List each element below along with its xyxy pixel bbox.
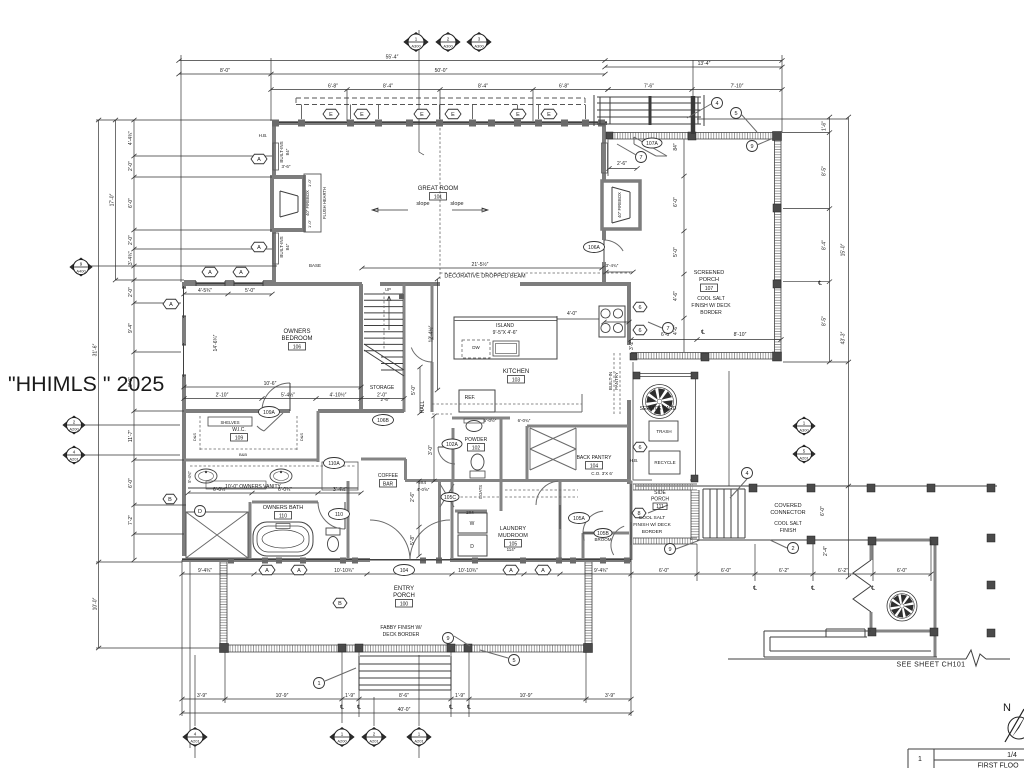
svg-text:7'-6″: 7'-6″ (644, 84, 654, 90)
svg-text:KITCHEN: KITCHEN (503, 369, 529, 375)
svg-text:9'-4¾″: 9'-4¾″ (198, 568, 212, 574)
svg-text:A: A (257, 245, 261, 251)
svg-text:SCREENED: SCREENED (694, 270, 725, 276)
svg-text:2'-0″: 2'-0″ (128, 161, 134, 171)
svg-text:BORDER: BORDER (642, 529, 663, 535)
svg-text:A400: A400 (76, 269, 86, 274)
svg-text:6'-0″: 6'-0″ (659, 568, 669, 574)
svg-text:8'-6″: 8'-6″ (399, 693, 409, 699)
svg-text:9: 9 (668, 547, 671, 553)
svg-text:COVERED: COVERED (774, 503, 801, 509)
svg-text:8'-5″: 8'-5″ (822, 316, 828, 326)
svg-text:D: D (470, 544, 474, 550)
svg-text:40″ FIREBOX: 40″ FIREBOX (617, 192, 622, 218)
svg-text:A: A (297, 568, 301, 574)
svg-text:40'-0″: 40'-0″ (398, 707, 411, 713)
svg-text:2X4: 2X4 (466, 510, 474, 515)
svg-text:8'-4″: 8'-4″ (383, 84, 393, 90)
svg-text:4'-6″: 4'-6″ (673, 325, 679, 335)
svg-text:6: 6 (638, 445, 641, 451)
svg-text:4'-5¾″: 4'-5¾″ (198, 288, 212, 294)
svg-text:A201: A201 (69, 457, 79, 462)
svg-text:℄: ℄ (817, 281, 822, 287)
svg-text:E: E (329, 112, 333, 118)
svg-text:10'-10¾″: 10'-10¾″ (458, 568, 478, 574)
svg-text:DECK BORDER: DECK BORDER (383, 632, 420, 638)
svg-text:1/4: 1/4 (1007, 752, 1017, 759)
svg-text:2'-10″: 2'-10″ (216, 393, 229, 399)
svg-text:A: A (257, 157, 261, 163)
svg-text:A: A (509, 568, 513, 574)
svg-text:2'-0″: 2'-0″ (128, 235, 134, 245)
svg-text:A300: A300 (474, 44, 484, 49)
svg-text:3'-0″: 3'-0″ (428, 445, 434, 455)
svg-text:10'-0″ OWNERS VANITY: 10'-0″ OWNERS VANITY (225, 484, 281, 490)
svg-text:6: 6 (638, 305, 641, 311)
svg-text:POWDER: POWDER (465, 437, 488, 443)
svg-text:A200: A200 (337, 739, 347, 744)
svg-text:BUILT-INS: BUILT-INS (279, 141, 284, 162)
svg-text:A201: A201 (369, 739, 379, 744)
svg-text:6'-0″: 6'-0″ (128, 198, 134, 208)
svg-text:LAUNDRY: LAUNDRY (500, 526, 527, 532)
svg-text:1: 1 (918, 756, 922, 763)
svg-text:105C: 105C (444, 495, 456, 501)
svg-text:A: A (541, 568, 545, 574)
svg-text:5'-4½″: 5'-4½″ (281, 392, 295, 399)
svg-text:D&S: D&S (299, 433, 304, 442)
svg-text:102: 102 (472, 445, 481, 451)
svg-text:℄: ℄ (700, 330, 705, 336)
svg-text:7: 7 (639, 155, 642, 161)
svg-text:4'-6″: 4'-6″ (673, 291, 679, 301)
svg-text:℄: ℄ (339, 705, 344, 711)
svg-text:1'-9″: 1'-9″ (455, 693, 465, 699)
svg-text:1'-6″: 1'-6″ (822, 121, 828, 131)
svg-text:DW: DW (472, 345, 480, 350)
svg-text:107A: 107A (646, 141, 658, 147)
svg-text:SERVICE YARD: SERVICE YARD (640, 406, 677, 412)
svg-text:COATS: COATS (478, 485, 483, 499)
svg-text:PORCH: PORCH (393, 593, 415, 599)
svg-text:UP: UP (385, 287, 391, 292)
svg-text:4'-0⅝″: 4'-0⅝″ (417, 487, 430, 492)
svg-text:BACK PANTRY: BACK PANTRY (577, 455, 612, 461)
svg-text:A: A (208, 270, 212, 276)
svg-text:6'-0″: 6'-0″ (128, 478, 134, 488)
svg-text:℄: ℄ (752, 586, 757, 592)
svg-text:9: 9 (750, 144, 753, 150)
svg-text:106: 106 (293, 344, 302, 350)
svg-text:FINISH W/ DECK: FINISH W/ DECK (633, 522, 671, 528)
svg-text:3'-9″: 3'-9″ (197, 693, 207, 699)
svg-text:ENTRY: ENTRY (394, 586, 414, 592)
svg-text:6'-8″: 6'-8″ (328, 84, 338, 90)
svg-text:℄: ℄ (810, 586, 815, 592)
svg-text:14'-6¾″: 14'-6¾″ (213, 334, 219, 351)
svg-text:9X4: 9X4 (418, 480, 427, 485)
svg-text:PORCH: PORCH (651, 497, 669, 503)
svg-text:110: 110 (335, 512, 343, 518)
svg-text:slope: slope (416, 201, 429, 207)
svg-text:RECYCLE: RECYCLE (654, 460, 675, 465)
svg-text:5'-0″: 5'-0″ (411, 385, 417, 395)
svg-text:5'-4¾″: 5'-4¾″ (187, 471, 192, 483)
svg-text:5'-8″: 5'-8″ (410, 535, 416, 545)
svg-text:℄: ℄ (870, 586, 875, 592)
svg-text:109: 109 (235, 435, 244, 441)
svg-text:114″: 114″ (507, 547, 516, 552)
svg-text:B: B (168, 497, 172, 503)
svg-text:8'-5″: 8'-5″ (822, 166, 828, 176)
svg-text:COFFEE: COFFEE (378, 473, 399, 479)
svg-text:6'-2″: 6'-2″ (779, 568, 789, 574)
svg-text:11'-7″: 11'-7″ (128, 430, 134, 443)
svg-text:E: E (547, 112, 551, 118)
svg-text:7: 7 (666, 326, 669, 332)
svg-text:5'-0″: 5'-0″ (245, 288, 255, 294)
svg-text:D&S: D&S (192, 433, 197, 442)
svg-text:HALL: HALL (420, 401, 426, 414)
svg-text:GREAT ROOM: GREAT ROOM (418, 186, 458, 192)
svg-text:2'-4″: 2'-4″ (823, 546, 829, 556)
svg-text:3'-2″: 3'-2″ (629, 340, 635, 350)
svg-text:OWNERS BATH: OWNERS BATH (263, 505, 304, 511)
svg-text:43'-3″: 43'-3″ (840, 331, 846, 344)
svg-text:3'-4¾″: 3'-4¾″ (606, 263, 619, 268)
svg-text:℄: ℄ (448, 705, 453, 711)
svg-text:9'-4″: 9'-4″ (128, 323, 134, 333)
svg-text:OWNERS: OWNERS (284, 329, 311, 335)
svg-text:5: 5 (512, 658, 515, 664)
svg-text:55'-4″: 55'-4″ (386, 55, 399, 61)
svg-text:D: D (198, 509, 202, 515)
svg-text:3'-4¾″: 3'-4¾″ (128, 251, 134, 265)
svg-text:9'-4¾″: 9'-4¾″ (594, 568, 608, 574)
svg-text:E: E (420, 112, 424, 118)
svg-text:W: W (470, 521, 475, 527)
svg-text:106B: 106B (377, 418, 389, 424)
svg-text:2'-0″: 2'-0″ (128, 287, 134, 297)
svg-text:10'-9″: 10'-9″ (520, 693, 533, 699)
svg-text:B&B: B&B (239, 452, 247, 457)
svg-text:A300: A300 (443, 44, 453, 49)
svg-text:A: A (169, 302, 173, 308)
svg-text:A201: A201 (414, 739, 424, 744)
svg-text:110A: 110A (328, 461, 340, 467)
svg-text:104: 104 (590, 463, 599, 469)
svg-text:9: 9 (446, 636, 449, 642)
svg-text:H.B.: H.B. (259, 133, 268, 138)
svg-text:6'-0¾″: 6'-0¾″ (518, 418, 531, 423)
svg-text:6'-0″: 6'-0″ (721, 568, 731, 574)
svg-text:A300: A300 (799, 428, 809, 433)
svg-text:102A: 102A (446, 442, 458, 448)
svg-text:8'-0″: 8'-0″ (128, 377, 134, 387)
svg-text:103: 103 (512, 377, 521, 383)
svg-text:4'-10½″: 4'-10½″ (330, 392, 347, 399)
svg-text:BROOM: BROOM (594, 537, 611, 542)
svg-text:A201: A201 (190, 739, 200, 744)
svg-text:4'-0″: 4'-0″ (567, 311, 577, 317)
svg-text:BUILT-INS: BUILT-INS (279, 236, 284, 257)
svg-text:6: 6 (638, 328, 641, 334)
svg-text:E: E (360, 112, 364, 118)
svg-text:5'-0″: 5'-0″ (673, 247, 679, 257)
svg-text:1'-9″: 1'-9″ (345, 693, 355, 699)
svg-text:21'-5½″: 21'-5½″ (472, 261, 489, 268)
svg-text:5'-0½″: 5'-0½″ (484, 417, 497, 423)
svg-text:BASE: BASE (309, 263, 321, 268)
svg-text:3'-4½″: 3'-4½″ (333, 486, 347, 493)
svg-text:6'-2″: 6'-2″ (838, 568, 848, 574)
svg-text:H.B.: H.B. (630, 458, 639, 463)
svg-text:A200: A200 (69, 427, 79, 432)
svg-text:E: E (516, 112, 520, 118)
svg-text:BORDER: BORDER (700, 310, 722, 316)
svg-text:A300: A300 (411, 44, 421, 49)
svg-text:2: 2 (791, 546, 794, 552)
svg-text:110: 110 (279, 513, 287, 519)
svg-text:8'-4″: 8'-4″ (822, 240, 828, 250)
svg-text:6'-0″: 6'-0″ (673, 197, 679, 207)
svg-text:℄: ℄ (466, 705, 471, 711)
svg-text:BUILT-IN: BUILT-IN (608, 372, 613, 390)
svg-text:6'-8″: 6'-8″ (559, 84, 569, 90)
svg-text:E: E (451, 112, 455, 118)
svg-text:104: 104 (400, 568, 409, 574)
svg-text:C.O. 3'X 6': C.O. 3'X 6' (591, 471, 613, 476)
svg-text:B: B (338, 601, 342, 607)
svg-text:4'-4¾″: 4'-4¾″ (128, 131, 134, 145)
svg-text:BEDROOM: BEDROOM (281, 336, 312, 342)
svg-text:4: 4 (715, 101, 718, 107)
svg-text:3'-6″: 3'-6″ (282, 164, 291, 169)
svg-text:ISLAND: ISLAND (496, 323, 514, 329)
svg-text:SIDE: SIDE (654, 490, 666, 496)
svg-text:FINISH W/ DECK: FINISH W/ DECK (691, 303, 731, 309)
svg-text:PANTRY: PANTRY (614, 372, 619, 390)
svg-text:7'-2″: 7'-2″ (128, 515, 134, 525)
svg-text:5: 5 (734, 111, 737, 117)
svg-text:4: 4 (745, 471, 748, 477)
svg-text:6'-0″: 6'-0″ (897, 568, 907, 574)
svg-text:BAR: BAR (383, 481, 394, 487)
svg-text:84″: 84″ (673, 143, 679, 151)
svg-text:3'-9″: 3'-9″ (605, 693, 615, 699)
svg-text:105A: 105A (573, 516, 585, 522)
svg-text:TRASH: TRASH (656, 429, 671, 434)
svg-text:10'-6″: 10'-6″ (264, 381, 277, 387)
svg-text:DECORATIVE DROPPED BEAM: DECORATIVE DROPPED BEAM (444, 274, 526, 280)
svg-text:FINISH: FINISH (780, 528, 797, 534)
svg-text:12'-4½″: 12'-4½″ (428, 325, 435, 342)
svg-text:84″: 84″ (285, 148, 290, 155)
svg-text:SHELVES: SHELVES (220, 420, 239, 425)
svg-text:W.I.C.: W.I.C. (232, 427, 246, 433)
svg-text:101: 101 (434, 194, 443, 200)
svg-text:A: A (239, 270, 243, 276)
svg-text:100: 100 (400, 601, 409, 607)
svg-text:8'-4″: 8'-4″ (478, 84, 488, 90)
svg-text:31'-6″: 31'-6″ (93, 343, 99, 356)
svg-text:REF.: REF. (465, 395, 476, 401)
svg-text:8'-0″: 8'-0″ (220, 68, 230, 74)
svg-text:slope: slope (450, 201, 463, 207)
svg-text:PORCH: PORCH (699, 277, 719, 283)
svg-text:COOL SALT: COOL SALT (697, 296, 725, 302)
svg-text:COOL SALT: COOL SALT (774, 521, 802, 527)
svg-text:40″ FIREBOX: 40″ FIREBOX (305, 190, 310, 216)
svg-text:107: 107 (705, 286, 714, 292)
svg-text:FLUSH HEARTH: FLUSH HEARTH (322, 187, 327, 219)
svg-text:111: 111 (656, 504, 664, 510)
svg-text:50'-0″: 50'-0″ (435, 68, 448, 74)
svg-text:COOL SALT: COOL SALT (639, 515, 665, 521)
svg-text:FIRST FLOO: FIRST FLOO (977, 763, 1019, 768)
svg-text:MUDROOM: MUDROOM (498, 533, 528, 539)
svg-text:10'-9″: 10'-9″ (276, 693, 289, 699)
svg-text:8'-10″: 8'-10″ (734, 332, 747, 338)
svg-text:2'-6″: 2'-6″ (381, 397, 390, 402)
svg-text:1'-0″: 1'-0″ (307, 219, 312, 228)
svg-text:7'-10″: 7'-10″ (731, 84, 744, 90)
svg-text:13'-4″: 13'-4″ (698, 61, 711, 67)
svg-text:"HHIMLS " 2025: "HHIMLS " 2025 (8, 372, 164, 396)
svg-text:N: N (1003, 702, 1011, 714)
svg-text:2'-6″: 2'-6″ (410, 492, 416, 502)
svg-text:FABBY FINISH W/: FABBY FINISH W/ (380, 625, 422, 631)
svg-text:105B: 105B (597, 531, 609, 537)
svg-text:SEE SHEET CH101: SEE SHEET CH101 (897, 662, 966, 669)
svg-text:10'-10¾″: 10'-10¾″ (334, 568, 354, 574)
svg-text:17'-0″: 17'-0″ (110, 193, 116, 206)
svg-text:℄: ℄ (356, 705, 361, 711)
svg-text:9'-5″X 4'-6″: 9'-5″X 4'-6″ (493, 330, 518, 336)
svg-text:A: A (265, 568, 269, 574)
svg-text:106A: 106A (588, 245, 600, 251)
svg-text:1: 1 (317, 681, 320, 687)
svg-text:STORAGE: STORAGE (370, 385, 395, 391)
svg-text:10'-0″: 10'-0″ (93, 597, 99, 610)
svg-text:1'-0″: 1'-0″ (307, 178, 312, 187)
svg-text:109A: 109A (263, 410, 275, 416)
svg-text:A201: A201 (799, 456, 809, 461)
svg-text:6'-0″: 6'-0″ (820, 506, 826, 516)
svg-text:15'-0″: 15'-0″ (840, 243, 846, 256)
svg-text:2'-6″: 2'-6″ (617, 161, 627, 167)
svg-text:84″: 84″ (285, 243, 290, 250)
svg-text:CONNECTOR: CONNECTOR (770, 510, 805, 516)
